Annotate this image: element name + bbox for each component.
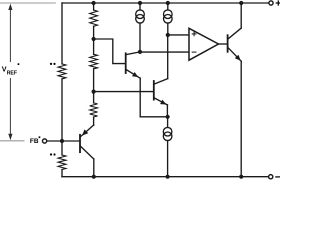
svg-text:FB: FB (30, 138, 39, 145)
transistor Q1 (NPN) (125, 53, 127, 73)
node chain / top rail (92, 1, 96, 5)
node I3 / bottom rail (166, 175, 170, 179)
node Q3 collector / top rail (239, 1, 243, 5)
node chain tap 1 (92, 37, 96, 41)
resistor R3 (chain top) (90, 10, 98, 26)
current source I1 (139, 3, 141, 10)
label FB* (30, 136, 40, 145)
wire chain tap2 to Q2 base (94, 91, 154, 93)
label VREF* (2, 63, 20, 76)
op-amp U1 (189, 28, 219, 60)
VREF top reference leader line (0, 2, 55, 4)
node FB junction (60, 139, 64, 143)
wire FB to Q5 base (47, 140, 80, 142)
node I2 / top rail (166, 1, 170, 5)
terminal FB (43, 139, 47, 143)
transistor Q2 (NPN) (153, 81, 155, 100)
wire to op-amp inverting input (140, 51, 189, 53)
resistor R4 (chain middle) (93, 39, 95, 54)
node Q5 collector / bottom rail (92, 175, 96, 179)
current source I3 (167, 117, 169, 128)
transistor Q3 (NPN output) (227, 35, 229, 52)
wire left rail mid (61, 79, 63, 141)
wire Q3 collector to top rail (240, 3, 242, 28)
node common emitters / I3 (166, 115, 170, 119)
wire left rail upper (61, 3, 63, 64)
FB reference leader line (0, 140, 24, 142)
terminal - (bottom right) (269, 175, 273, 179)
wire Q3 emitter to bottom rail (240, 61, 242, 177)
resistor R5 (chain bottom) (93, 92, 95, 103)
wire I2 to Q2 collector (167, 35, 169, 79)
wire Q2 emitter to common node (166, 105, 168, 117)
transistor Q5 (PNP) (79, 135, 81, 152)
resistor R2 (left upper, **) (58, 64, 66, 79)
node Q1 collector / I1 / op-amp minus (138, 50, 142, 54)
svg-text:REF: REF (7, 70, 17, 76)
node chain tap 2 (92, 90, 96, 94)
current source I2 (167, 3, 169, 10)
wire chain top lead (93, 3, 95, 10)
node I2 / Q2 collector / op-amp plus (166, 33, 170, 37)
wire Q5 collector to bottom rail (93, 159, 95, 177)
node I1 / top rail (138, 1, 142, 5)
bottom rail (62, 176, 269, 178)
wire Q1 emitter down/right to common node (140, 78, 167, 117)
wire op-amp output to Q3 base (219, 43, 227, 45)
node Q3 emitter / bottom rail (239, 175, 243, 179)
resistor R1 (left lower, **) (61, 141, 63, 155)
wire to op-amp non-inverting input (168, 34, 189, 36)
wire chain tap1 to Q1 base (94, 39, 125, 64)
VREF dimension line with arrows (9, 9, 11, 135)
top supply rail (62, 2, 269, 4)
terminal + (top right) (269, 1, 273, 5)
